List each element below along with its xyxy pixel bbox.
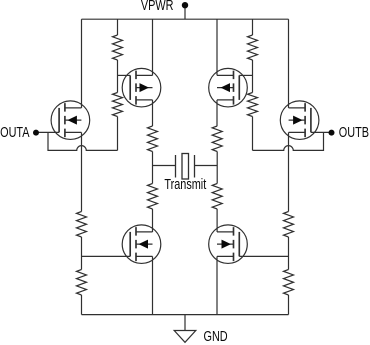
- wire R3 to R4: [252, 60, 254, 93]
- wire OUTA feedback jog with hop: [48, 132, 118, 150]
- wire GND stub: [184, 315, 186, 331]
- wire rail to R3: [252, 19, 254, 35]
- OUTA terminal dot: [33, 130, 39, 136]
- wire M6 source to rail: [216, 256, 218, 314]
- svg-text:OUTB: OUTB: [339, 123, 369, 140]
- wire R1 to R2: [117, 60, 119, 93]
- wire M2 to rail: [152, 19, 154, 75]
- wire rail to R1: [117, 19, 119, 35]
- svg-text:VPWR: VPWR: [141, 0, 174, 14]
- resistor R8: [212, 184, 222, 210]
- wire R5 to crystal node: [152, 152, 154, 184]
- wire M4 drain to rail: [288, 19, 290, 108]
- resistor R1: [113, 35, 123, 60]
- svg-text:OUTA: OUTA: [0, 123, 30, 140]
- wire crystal right lead: [195, 165, 218, 167]
- wire R10 to R12: [288, 237, 290, 270]
- resistor R5: [148, 126, 158, 152]
- wire R12 to rail: [288, 295, 290, 315]
- wire M1 source down: [81, 132, 83, 211]
- wire VPWR rail: [82, 18, 289, 20]
- crystal X1: [176, 154, 195, 180]
- wire R7 to M5 drain: [152, 209, 154, 232]
- wire M3 source to R6: [216, 100, 218, 126]
- transistor M3: [209, 68, 248, 107]
- wire M1 drain to rail: [81, 19, 83, 108]
- wire gate of M2: [118, 74, 131, 76]
- wire ground rail: [82, 314, 289, 316]
- wire R9 to R11: [81, 237, 83, 270]
- svg-text:GND: GND: [204, 327, 228, 344]
- VPWR terminal dot: [182, 2, 188, 8]
- resistor R10: [284, 212, 294, 238]
- wire gate of M4 to OUTB: [311, 131, 332, 133]
- transistor M4: [280, 101, 319, 140]
- transistor M1: [51, 101, 90, 140]
- wire crystal left lead: [153, 165, 176, 167]
- transistor M5: [122, 225, 161, 264]
- wire M2 source to R5: [152, 100, 154, 126]
- wire gate of M5: [82, 255, 131, 257]
- wire M5 source to rail: [152, 256, 154, 314]
- wire R2 to OUTA node: [117, 117, 119, 151]
- svg-text:Transmit: Transmit: [164, 175, 206, 192]
- wire VPWR stub: [184, 5, 186, 19]
- resistor R12: [284, 270, 294, 296]
- wire R6 to crystal node: [216, 152, 218, 184]
- wire M3 to rail: [216, 19, 218, 75]
- OUTB terminal dot: [329, 130, 335, 136]
- ground symbol: [174, 331, 196, 343]
- wire gate of M3: [239, 74, 252, 76]
- wire R4 to OUTB node: [252, 117, 254, 151]
- resistor R11: [77, 270, 87, 296]
- wire R8 to M6 drain: [216, 209, 218, 232]
- transistor M2: [122, 68, 161, 107]
- wire OUTA to gate of M1: [36, 131, 59, 133]
- wire M4 source down: [288, 132, 290, 211]
- resistor R4: [248, 93, 258, 117]
- transistor M6: [209, 225, 248, 264]
- wire gate of M6: [239, 255, 288, 257]
- wire R11 to rail: [81, 295, 83, 315]
- resistor R6: [212, 126, 222, 152]
- wire OUTB feedback jog with hop: [253, 132, 324, 150]
- resistor R9: [77, 212, 87, 238]
- resistor R3: [248, 35, 258, 60]
- resistor R2: [113, 93, 123, 117]
- resistor R7: [148, 184, 158, 210]
